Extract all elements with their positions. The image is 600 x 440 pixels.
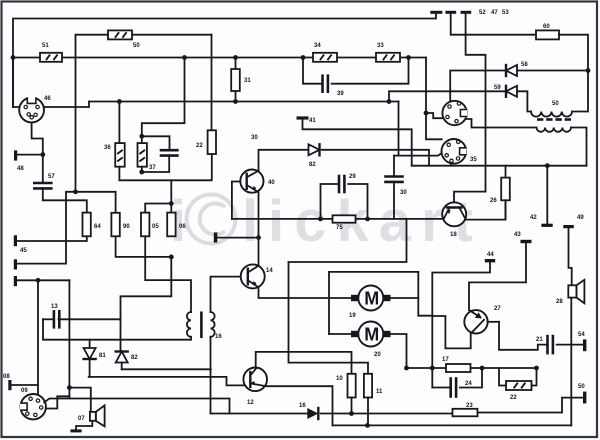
resistor R17 [446,364,471,372]
wire zigzag x=288.5 net [288,262,290,352]
wire Q40 collector to diode D82 row y=149.8 [259,150,309,171]
antenna terminal 47 [445,11,456,14]
svg-text:09: 09 [21,388,28,394]
wire main bus y=57.5 [13,57,40,59]
svg-text:37: 37 [149,165,156,171]
svg-text:50: 50 [552,101,559,107]
wire bus y=101.5 [89,101,399,103]
wire Q18 emitter to R26 bottom [466,200,505,219]
svg-text:28: 28 [556,299,563,305]
svg-text:33: 33 [377,43,384,49]
tube socket V46 [19,97,44,123]
wire x=38 down to socket09 top [37,280,39,394]
wire speaker07 to ground bar [76,421,92,430]
wire motor frame left x=329 [328,272,330,334]
svg-text:24: 24 [465,381,472,387]
wire diode D58 row y=70.5, socket45 top feed [450,71,506,102]
terminal 45c [14,276,17,286]
wire socket46 bottom to cap C57 [32,122,43,182]
wire bus y=368 right part [471,367,537,369]
resistor R90 [111,213,119,237]
node junction at (13,57.5) [11,55,16,60]
resistor R33 [376,53,400,62]
svg-text:27: 27 [494,306,501,312]
resistor R51 [40,53,62,62]
capacitor C30 with stems [393,156,395,176]
resistor R37 [138,143,147,167]
node junction at (38,280.3) [36,278,41,283]
wire R06 net down to diode D82b junction [121,257,172,351]
wire T50 upper right to node (588,70.5) [572,71,588,112]
svg-text:05: 05 [152,224,159,230]
node junction at (588,70.5) [586,68,591,73]
wire bus y=413.5 diode to R23 [321,413,453,415]
svg-text:39: 39 [337,91,344,97]
svg-text:26: 26 [490,198,497,204]
wire speaker 07 feed [69,388,90,412]
wire terminal44 to x=432.3 net [432,262,490,387]
wire M20 left lead [329,333,351,335]
svg-text:49: 49 [577,215,584,221]
wire R06 stem [170,203,172,212]
wire R05 top row y=203.5 [145,204,171,213]
wire terminal45b lead [17,263,66,265]
transformer T50 lower winding [537,128,572,132]
wire terminal45c row y=280.3 [17,279,69,281]
resistor R31 with leads [235,58,237,70]
wire Q14 collector stem to node [258,238,260,266]
svg-text:75: 75 [336,225,343,231]
wire socket46 right lead to bus y=101.5 [44,102,89,108]
svg-text:06: 06 [179,224,186,230]
wire T50 lower right down to bus y=165.7 [571,128,587,166]
diode D82b with stems [116,352,128,363]
transformer T50 upper winding [531,112,572,117]
wire Q40 emitter down across bus [258,193,260,238]
wire R36 top stem [118,102,120,144]
wire terminal41 to x=411.7 riser [303,120,412,166]
svg-text:43: 43 [514,232,521,238]
resistor R26 with leads [505,166,507,178]
resistor R75 [333,215,356,222]
node junction at (389,101.5) [387,99,392,104]
svg-text:42: 42 [530,215,537,221]
wire y=262 link [289,219,407,262]
svg-text:M: M [364,325,379,345]
diode D59 [506,86,517,97]
wire Q27 east lead to riser x=499 [488,321,499,323]
wire antenna47 stem to R60 row [451,14,536,35]
node junction at (141.8,136.3) [139,134,144,139]
node junction at (42.8,154.6) [40,152,45,157]
transformer T16 right winding [211,312,215,337]
svg-text:36: 36 [104,145,111,151]
svg-text:23: 23 [466,403,473,409]
wire R60 to right edge down to diode58 node [559,35,588,71]
transistor Q27 [464,310,487,333]
wire R37 top jog to bus y=57.5 [142,58,185,137]
wire D82b bottom row y=369.3 to transformer right leg [122,368,211,370]
svg-text:17: 17 [442,357,449,363]
resistor R23 [453,409,478,417]
svg-text:31: 31 [244,78,251,84]
node junction at (351.5,413.5) [349,411,354,416]
wire terminal48 to junction [17,154,43,156]
wire node riser x=426 from y=57.5 with socket taps [426,58,442,140]
wire Q18 collector to bar-3 net [454,192,486,203]
capacitor C21 branch [499,322,548,350]
resistor R34 [313,53,337,62]
svg-text:29: 29 [349,174,356,180]
wire Q12 emitter to drop x=332.5 [267,386,333,425]
node junction at (171.3,203.4) [169,201,174,206]
terminal 49 [563,225,574,228]
svg-text:57: 57 [48,174,55,180]
svg-text:16: 16 [299,403,306,409]
resistor R05 [141,213,149,237]
wire D81 bottom row y=376.9 to Q12 base [89,377,244,386]
wire bus y=101.5 end riser to cap C30 row [398,102,400,156]
capacitor C24 parallel with R17 [432,387,450,389]
wire socket35 bottom stem [450,164,452,166]
resistor R64 [83,213,91,237]
svg-text:34: 34 [314,43,321,49]
terminal 48 [14,150,17,160]
wire M20 right lead down to bus y=368 [391,334,407,368]
wire bottom bus y=413.5 [211,413,308,415]
transformer T16 left winding [190,311,192,313]
wire R05 bottom to transformer T16 left top [145,236,191,312]
tube socket V45 [442,101,467,125]
wire R90 bottom to R06 net [116,236,172,257]
svg-text:16: 16 [215,334,222,340]
wire socket45 lower-left pin tap [426,113,443,118]
node junction at (69.4,387.6) [67,385,72,390]
wire resistor R50 row y=34.7 [76,35,109,192]
node junction at (536.5,368) [534,366,539,371]
svg-text:10: 10 [336,376,343,382]
wire T16 left bottom to diode row [190,337,192,340]
diode D16 [307,408,318,419]
wire socket35 feed from cap C30 row [394,151,445,156]
ground bar 08b [70,429,81,432]
node junction at (119.4,101.5) [117,99,122,104]
wire bar to node y=237.6 [217,237,258,239]
wire terminal 42 stem [546,166,548,224]
svg-text:64: 64 [94,224,101,230]
speaker SP07 [90,412,96,421]
terminal bar Q40 emitter return [214,232,218,242]
node junction at (141.8,172) [139,170,144,175]
terminal 45a [14,235,17,246]
wire bus y=218.9 Q40base-R75-Q18base [232,218,333,220]
wire socket45 right to T50 lower left [467,119,537,128]
wire R50 right to R22 top [211,35,213,131]
transistor Q18 [442,202,466,226]
terminal 41 [297,116,309,119]
node junction at (171.3,256.9) [169,255,174,260]
resistor R22 [208,130,216,154]
wire R10 bottom stem [351,398,353,414]
wire R36 bottom row y=180.3 to R22 bottom [119,154,211,180]
wire D58 to node (588,70.5) [517,70,588,72]
node junction at (258.5,237.6) [256,235,261,240]
svg-text:22: 22 [196,143,203,149]
svg-text:30: 30 [400,190,407,196]
wire Q27 emitter leg to terminal44 net [432,316,470,348]
svg-text:50: 50 [578,384,585,390]
tube socket V09 [20,394,46,419]
transformer T16 core bar [200,312,203,339]
resistor R11 [364,374,372,398]
wire motor frame top y=271.9 [329,271,418,273]
wire D82 to riser x=429 [322,150,429,166]
svg-text:82: 82 [309,162,316,168]
wire terminal 49 to speaker 28 top [569,228,572,285]
wire T16 right top to Q14 base [211,277,241,312]
wire top bus y=18.5 to antenna 52 [13,13,436,107]
svg-text:52: 52 [479,10,486,16]
wire R64 bottom to terminal 45a [17,236,87,241]
svg-text:53: 53 [502,10,509,16]
wire diode D59 row y=91.3 from node (389,101.5) [389,91,506,101]
capacitor C57 [34,182,51,185]
svg-text:51: 51 [42,43,49,49]
svg-text:11: 11 [376,389,383,395]
transformer T50 core dashes [537,118,543,121]
wire y=191.8 bus, R90 feed [66,192,116,264]
resistor R36 [115,143,125,167]
terminal 54 [583,339,586,351]
node junction at (367.5,425.4) [365,423,370,428]
node junction at (431.9,368) [430,366,435,371]
wire R11 bottom stem [367,398,369,426]
wire socket09 upper pin to bus y=398.5 [44,399,229,414]
wire M19 right lead [391,297,419,299]
wire Q14 emitter to motor row y=298 [259,288,352,298]
svg-text:81: 81 [99,353,106,359]
terminal 53b [583,392,586,404]
node junction at (367.5,218.9) [365,217,370,222]
wire bus y=165.7 [412,165,587,167]
svg-text:18: 18 [450,232,457,238]
node junction at (426,113) [424,111,429,116]
wire bus y=368 [407,367,447,369]
svg-text:22: 22 [510,395,517,401]
antenna terminal 52 [430,11,442,14]
wire bottom bus y=425.4 [333,424,572,426]
svg-text:59: 59 [494,85,501,91]
terminal 08 [8,380,11,390]
svg-text:60: 60 [543,24,550,30]
svg-text:47: 47 [491,10,498,16]
svg-text:50: 50 [133,43,140,49]
wire terminal43 to Q27 collector [469,243,526,310]
svg-text:12: 12 [247,400,254,406]
svg-text:44: 44 [487,252,494,258]
wire speaker28 bottom leg x=571.3 [570,298,572,426]
node junction at (235.5,57.5) [233,55,238,60]
tube socket V35 [442,139,467,164]
terminal 44 [485,259,495,262]
wire R06 top tee from y=180.3 [170,180,172,203]
svg-text:46: 46 [44,96,51,102]
wire R37 bottom stem [141,167,143,172]
svg-text:58: 58 [521,62,528,68]
transistor Q12 [243,368,267,392]
wire T16 right bottom long leg to bottom bus [210,337,212,414]
capacitor C13 [43,318,54,320]
wire motor frame right x=418.3 [418,272,432,316]
wire Q12 collector to R10/R11 tops [256,352,352,374]
wire socket09 right pin step to junction net [46,396,70,408]
resistor R22b loop below bus [499,368,506,386]
wire socket46 left lead [13,58,19,108]
diode D58 [506,65,517,76]
terminal 45b [14,259,17,269]
resistor R60 [536,30,559,39]
svg-text:20: 20 [374,352,381,358]
motor M20 [351,322,391,347]
antenna terminal 53 [461,11,472,14]
diode D82 [309,144,320,155]
node junction at (184.5,57.5) [182,55,187,60]
wire D59 to transformer upper winding [517,91,531,111]
wire Q40 base to bus y=218.9 [232,182,240,219]
wire antenna53 stem down [466,14,486,192]
svg-text:13: 13 [51,304,58,310]
svg-text:41: 41 [309,118,316,124]
watermark iClickart (background) [187,195,236,244]
node junction at (303,57.5) [301,55,306,60]
terminal 42 [541,224,552,227]
node junction at (547.3,165.7) [545,163,550,168]
terminal 43 [521,240,532,243]
svg-text:82: 82 [131,355,138,361]
svg-text:30: 30 [251,135,258,141]
svg-text:08: 08 [3,374,10,380]
svg-text:M: M [364,289,379,309]
svg-text:90: 90 [123,224,130,230]
wire drop x=288.5 to R11 top [289,352,369,374]
svg-text:21: 21 [536,337,543,343]
transistor Q40 [240,170,263,193]
resistor R06 [167,213,175,237]
svg-text:07: 07 [78,416,85,422]
wire R37 top stem [141,136,143,143]
resistor R50 [108,30,132,39]
capacitor C29 parallel loop [321,184,340,219]
node junction at (482,368) [480,366,485,371]
node junction at (408.5,57.5) [406,55,411,60]
node junction at (320.5,218.9) [318,217,323,222]
wire C13 left lead down to diode row y=339.7 [43,319,191,339]
speaker SP28 [568,285,576,297]
transistor Q14 [241,264,265,288]
svg-text:19: 19 [349,313,356,319]
svg-text:14: 14 [266,268,273,274]
motor M19 [351,286,391,311]
svg-text:40: 40 [268,180,275,186]
svg-text:35: 35 [470,157,477,163]
node junction at (75.5,191.8) [73,189,78,194]
wire terminal08 lead [12,384,39,386]
svg-text:54: 54 [578,332,585,338]
svg-text:48: 48 [17,166,24,172]
svg-text:45: 45 [20,248,27,254]
capacitor C39 loop [303,58,322,84]
diode D81 with stems [89,340,91,348]
wire C57 bottom to resistor R64 top [43,188,87,212]
capacitor C37a parallel [142,136,170,149]
resistor R10 [348,374,356,398]
node junction at (406.5,368) [404,366,409,371]
wire x=69.4 down to speaker junction [68,280,70,398]
wire C13 right lead to x=120.5 [59,318,121,320]
node junction at (235.5,101.5) [233,99,238,104]
wire R23 right to terminal 53b [478,398,584,413]
